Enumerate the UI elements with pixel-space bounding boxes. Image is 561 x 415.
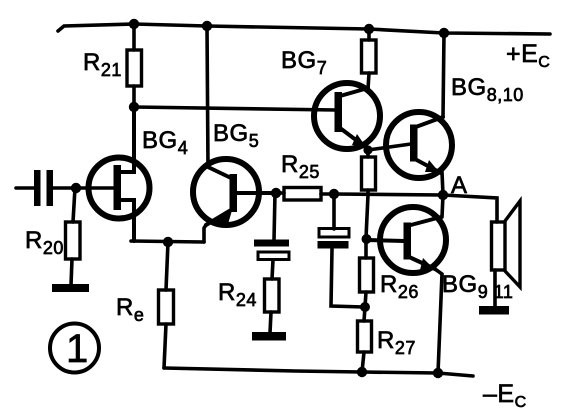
wire -Ec bottom rail (164, 368, 473, 376)
transistor BG5 (193, 120, 276, 225)
node R26/R27/cap (360, 302, 370, 312)
svg-text:BG9 11: BG9 11 (442, 271, 513, 302)
svg-text:R21: R21 (83, 49, 122, 80)
node emitter rail / Re (163, 237, 173, 247)
wire BG5 collector riser to top rail (207, 26, 208, 167)
ground speaker (479, 306, 509, 315)
wire BG5 base node down to C24 (274, 193, 275, 240)
ground R20 (52, 284, 89, 292)
svg-text:BG7: BG7 (281, 47, 327, 78)
transistor BG7 (281, 47, 380, 149)
ground R24 (252, 332, 286, 341)
figure number 1 (50, 324, 99, 373)
capacitor input coupling (34, 170, 53, 206)
resistor R27 (358, 307, 416, 372)
svg-text:R25: R25 (281, 151, 320, 182)
svg-text:R27: R27 (377, 327, 416, 358)
wire speaker to ground (493, 270, 497, 307)
transistor BG9,11 (366, 207, 513, 302)
node R25 right / compensation cap (329, 189, 339, 199)
wire BG9,11 emitter to bottom rail (435, 269, 442, 373)
wire BG8,10 emitter to node A (442, 172, 443, 195)
speaker (492, 201, 521, 287)
wire input cap to BG4 base (53, 186, 114, 190)
wire compensation cap to R26/R27 node (331, 249, 364, 307)
capacitor C at BG5 base (top plate) (254, 240, 289, 260)
wire node A down to BG9,11 collector (442, 195, 443, 217)
node top rail / R21 (129, 19, 139, 29)
svg-text:BG5: BG5 (213, 120, 259, 151)
svg-text:BG8,10: BG8,10 (451, 74, 524, 105)
wire output line R25 to node A (334, 194, 443, 195)
node BG4 base / R20 (71, 183, 81, 193)
node top rail / BG8,10 collector (439, 28, 449, 38)
wire node A to speaker (443, 195, 497, 222)
svg-text:R20: R20 (25, 227, 64, 258)
wire BG4 collector node to BG7 base (134, 107, 336, 110)
wire output line to BG7-resistor column junction (366, 195, 368, 238)
transistor BG8,10 (386, 74, 524, 178)
wire input (16, 186, 35, 190)
node BG5 base / R25 (271, 188, 281, 198)
svg-text:BG4: BG4 (142, 127, 188, 158)
svg-text:R24: R24 (218, 279, 257, 310)
resistor Re (116, 242, 174, 368)
resistor R26 (360, 239, 419, 307)
capacitor compensation (318, 229, 350, 249)
wire cap to R24 (272, 260, 273, 279)
wire emitter rail BG4-BG5 (131, 241, 204, 242)
resistor below BG7 (362, 150, 376, 195)
resistor R25 (276, 151, 334, 200)
node top rail / BG5 collector (202, 21, 212, 31)
transistor BG4 (89, 110, 189, 241)
svg-text:+EC: +EC (506, 40, 550, 71)
svg-text:Re: Re (116, 294, 144, 325)
node top rail / BG7 collector resistor (364, 24, 374, 34)
node R27 bottom rail (357, 367, 367, 377)
node BG9,11 base / R26 (362, 234, 372, 244)
node BG9,11 emitter bottom rail (433, 368, 443, 378)
node R21 bottom / BG4 collector (129, 102, 139, 112)
wire R25 node down to compensation cap (332, 194, 336, 229)
wire BG7 emitter to BG8,10 base (368, 144, 411, 150)
resistor R24 (218, 279, 279, 333)
svg-text:1: 1 (66, 327, 89, 371)
node A (438, 190, 448, 200)
resistor R21 (83, 24, 142, 107)
wire BG8,10 collector to top rail (443, 33, 444, 117)
node BG7 emitter (363, 145, 372, 154)
resistor above BG7 (362, 29, 377, 89)
resistor R20 (25, 188, 80, 285)
svg-text:–EC: –EC (483, 380, 527, 411)
wire +Ec top rail (58, 24, 550, 34)
wire BG5 emitter down (204, 225, 206, 242)
